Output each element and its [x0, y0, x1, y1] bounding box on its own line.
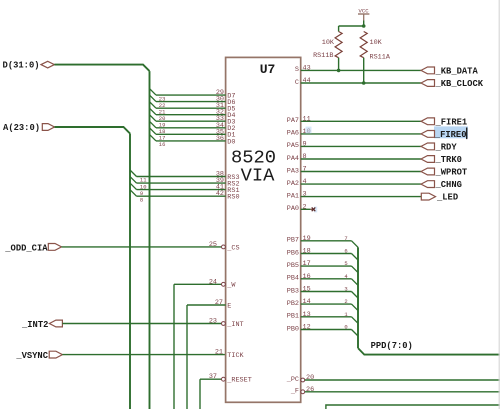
svg-text:PA1: PA1	[287, 192, 299, 200]
svg-text:PA2: PA2	[287, 180, 299, 188]
svg-text:17: 17	[303, 260, 311, 268]
svg-text:16: 16	[303, 273, 311, 281]
pin 9 PA5	[287, 140, 421, 150]
svg-text:15: 15	[303, 286, 311, 294]
svg-text:PB5: PB5	[287, 262, 299, 270]
port D(31:0) bus label	[3, 61, 55, 71]
wire _W vertical	[173, 284, 175, 409]
pin 11 PA7	[287, 115, 421, 125]
svg-text:23: 23	[209, 318, 217, 326]
pin 10 PA6	[287, 128, 421, 138]
pin 37 _RESET inverted	[200, 373, 252, 384]
svg-text:7: 7	[303, 166, 307, 174]
svg-text:26: 26	[306, 386, 314, 394]
svg-text:2: 2	[344, 298, 347, 305]
svg-text:PB3: PB3	[287, 287, 299, 295]
op-amp U7 chip body 8520 VIA	[226, 57, 301, 402]
svg-text:RS11A: RS11A	[370, 54, 391, 62]
port _VSYNC	[15, 351, 62, 361]
svg-text:PA6: PA6	[287, 130, 299, 138]
svg-text:_CS: _CS	[226, 244, 239, 252]
pin 35 D1 with wire from D bus	[150, 128, 236, 142]
pin 38 RS3 with wire from A bus	[130, 170, 240, 184]
node junction RS11B to S wire	[337, 69, 341, 73]
port _TRK0	[421, 155, 462, 165]
pin 31 D5 with wire from D bus	[150, 102, 236, 116]
svg-text:S: S	[295, 66, 299, 74]
pin 20 _PC inverted	[286, 374, 500, 384]
svg-text:_VSYNC: _VSYNC	[15, 351, 48, 361]
wire A bus horizontal+bend	[55, 127, 131, 134]
wire D bus vertical	[149, 71, 151, 409]
svg-text:6: 6	[344, 248, 347, 255]
svg-text:43: 43	[303, 64, 311, 72]
svg-text:_INT: _INT	[226, 321, 243, 329]
svg-text:PPD(7:0): PPD(7:0)	[371, 341, 413, 351]
pin 16 PB4 to PPD bus	[287, 273, 358, 286]
wire D bus horizontal+bend	[54, 65, 149, 72]
text cursor caret	[466, 128, 467, 140]
svg-text:U7: U7	[260, 62, 276, 77]
pin 8 PA4	[287, 153, 421, 163]
svg-text:16: 16	[159, 141, 166, 148]
svg-text:_LED: _LED	[436, 193, 458, 203]
wire PPD bus vertical	[357, 247, 359, 348]
svg-text:3: 3	[303, 191, 307, 199]
svg-text:PA4: PA4	[287, 155, 299, 163]
svg-text:42: 42	[216, 190, 224, 198]
port _RDY	[421, 143, 457, 153]
svg-text:PB1: PB1	[287, 313, 299, 321]
pin 42 RS0 with wire from A bus	[130, 190, 240, 204]
pin 44 C	[295, 77, 421, 87]
port _LED	[421, 193, 458, 203]
svg-text:PB0: PB0	[287, 325, 299, 333]
svg-text:19: 19	[303, 235, 311, 243]
svg-text:24: 24	[209, 278, 217, 286]
port A(23:0) bus label	[3, 123, 54, 133]
svg-text:21: 21	[215, 349, 223, 357]
pin 13 PB1 to PPD bus	[287, 311, 358, 324]
wire VCC down	[363, 21, 365, 27]
svg-text:25: 25	[209, 241, 217, 249]
svg-text:27: 27	[215, 299, 223, 307]
svg-text:C: C	[295, 79, 299, 87]
pin 32 D4 with wire from D bus	[150, 108, 236, 122]
svg-text:_TRK0: _TRK0	[435, 155, 462, 165]
svg-text:_W: _W	[226, 282, 236, 290]
pin 26 _F inverted	[290, 386, 500, 396]
svg-text:14: 14	[303, 298, 311, 306]
svg-text:PA3: PA3	[287, 167, 299, 175]
pin 29 D7 with wire from D bus	[150, 89, 236, 103]
svg-text:5: 5	[344, 260, 347, 267]
svg-text:_WPROT: _WPROT	[435, 168, 468, 178]
svg-text:RS11B: RS11B	[313, 52, 333, 60]
wire _VSYNC to TICK	[62, 354, 225, 356]
svg-text:_FIRE0: _FIRE0	[434, 130, 467, 140]
pin 21 TICK	[215, 349, 245, 360]
pin 17 PB5 to PPD bus	[287, 260, 358, 273]
svg-text:_F: _F	[290, 388, 299, 396]
svg-text:PB7: PB7	[287, 237, 299, 245]
svg-text:PA5: PA5	[287, 142, 299, 150]
wire _INT2 to _INT	[62, 323, 221, 325]
wire _ODD_CIA to _CS	[62, 246, 222, 248]
svg-text:4: 4	[303, 178, 307, 186]
svg-text:9: 9	[303, 140, 307, 148]
pin 14 PB2 to PPD bus	[287, 298, 358, 311]
svg-text:E: E	[227, 302, 231, 310]
port _FIRE0	[421, 130, 466, 140]
port _ODD_CIA	[4, 243, 61, 253]
svg-text:_PC: _PC	[286, 376, 299, 384]
pin 41 RS1 with wire from A bus	[130, 183, 240, 197]
node junction VCC split	[362, 24, 366, 28]
node PPD(7:0) bus label	[371, 341, 413, 351]
port _FIRE1	[421, 117, 467, 127]
svg-text:11: 11	[303, 115, 311, 123]
pin 24 _W inverted	[174, 278, 236, 289]
pin 4 PA2	[287, 178, 421, 188]
pin 19 PB7 to PPD bus	[287, 235, 358, 248]
pin 39 RS2 with wire from A bus	[130, 177, 240, 191]
svg-text:44: 44	[303, 77, 311, 85]
pin 15 PB3 to PPD bus	[287, 286, 358, 299]
svg-text:RS0: RS0	[227, 194, 239, 202]
highlight box selected label	[306, 126, 469, 138]
pin 23 _INT inverted	[209, 318, 244, 329]
svg-text:PB2: PB2	[287, 300, 299, 308]
svg-text:_KB_CLOCK: _KB_CLOCK	[435, 79, 484, 89]
svg-text:0: 0	[344, 324, 347, 331]
wire across to RS11B	[339, 25, 364, 27]
port _CHNG	[421, 180, 462, 190]
port _WPROT	[421, 168, 468, 178]
resistor RS11A 10K	[360, 32, 391, 62]
wire RS11B bottom lead	[338, 58, 340, 71]
wire PPD bus bend	[358, 348, 500, 355]
svg-text:13: 13	[303, 311, 311, 319]
pin 30 D6 with wire from D bus	[150, 95, 236, 109]
wire A bus vertical	[129, 134, 131, 409]
svg-text:2: 2	[303, 203, 307, 211]
port _KB_DATA	[421, 67, 478, 77]
wire RS11B top lead	[338, 26, 340, 32]
chip value 8520	[231, 147, 276, 169]
svg-text:VIA: VIA	[241, 165, 276, 187]
svg-text:TICK: TICK	[227, 352, 244, 360]
svg-text:A(23:0): A(23:0)	[3, 123, 40, 133]
port _INT2	[21, 320, 62, 330]
svg-text:3: 3	[344, 286, 347, 293]
window edge line	[498, 0, 500, 409]
port _KB_CLOCK	[421, 79, 484, 89]
svg-text:12: 12	[303, 324, 311, 332]
pin 12 PB0 to PPD bus	[287, 324, 358, 337]
svg-text:_INT2: _INT2	[21, 320, 48, 330]
wire _RESET vertical	[199, 379, 201, 409]
node junction RS11A to C wire	[362, 81, 366, 85]
svg-text:PB6: PB6	[287, 249, 299, 257]
pin 34 D2 with wire from D bus	[150, 121, 236, 135]
svg-text:PA7: PA7	[287, 117, 299, 125]
svg-text:D(31:0): D(31:0)	[3, 61, 40, 71]
svg-text:36: 36	[216, 135, 224, 143]
wire bottom corner	[326, 405, 500, 409]
chip value VIA	[241, 165, 276, 187]
pin 43 S	[295, 64, 421, 74]
wire RS11A bottom lead	[363, 58, 365, 83]
svg-text:37: 37	[209, 373, 217, 381]
svg-text:_KB_DATA: _KB_DATA	[435, 67, 479, 77]
svg-text:PA0: PA0	[287, 205, 299, 213]
pin 27 E	[187, 299, 231, 310]
svg-text:18: 18	[303, 248, 311, 256]
chip refdes U7	[260, 62, 276, 77]
pin 33 D3 with wire from D bus	[150, 115, 236, 129]
svg-text:8: 8	[303, 153, 307, 161]
svg-text:8: 8	[140, 196, 143, 203]
svg-text:D0: D0	[227, 138, 235, 146]
power VCC	[358, 8, 369, 21]
wire E vertical	[186, 305, 188, 409]
svg-text:PB4: PB4	[287, 275, 299, 283]
pin 36 D0 with wire from D bus	[150, 134, 236, 148]
svg-text:20: 20	[306, 374, 314, 382]
resistor RS11B 10K	[313, 32, 342, 61]
svg-text:10K: 10K	[370, 39, 383, 47]
svg-text:7: 7	[344, 235, 347, 242]
pin 25 _CS inverted	[209, 241, 240, 252]
pin 18 PB6 to PPD bus	[287, 248, 358, 261]
svg-text:_CHNG: _CHNG	[435, 180, 462, 190]
pin 7 PA3	[287, 166, 421, 176]
svg-text:10K: 10K	[322, 39, 335, 47]
svg-text:_RESET: _RESET	[226, 377, 251, 385]
pin 2 PA0 no-connect	[287, 203, 317, 213]
svg-text:_FIRE1: _FIRE1	[435, 117, 468, 127]
svg-text:_RDY: _RDY	[435, 143, 458, 153]
svg-text:_ODD_CIA: _ODD_CIA	[4, 243, 48, 253]
pin 3 PA1	[287, 191, 421, 201]
